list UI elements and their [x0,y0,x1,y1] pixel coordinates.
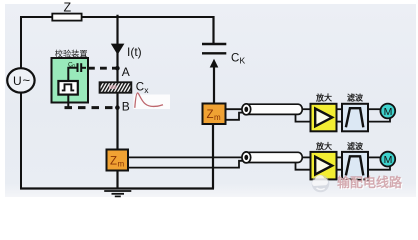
svg-text:C: C [136,82,144,94]
svg-text:x: x [144,85,149,95]
wire coax to amplifier (top rail) [303,108,311,110]
wire Zm2 to coax shield (bottom rail) [128,161,244,168]
amplifier box (top) [311,104,337,132]
wires amp to filter (top channel) [337,108,343,110]
wire filter to meter (top) [368,108,380,110]
measuring impedance Zm1 [203,104,226,125]
pulse generator (square-wave source) [58,81,77,95]
capacitor Cx (hatched specimen) [100,82,132,92]
bottom wire [20,187,214,189]
resistor Z [52,14,81,21]
junction dot at A [115,66,120,71]
arrow I(t) [111,44,125,55]
wire: main vertical below Zm2 to bottom wire [116,170,118,189]
wire stub from C0 to dashed line [81,67,86,69]
wire Zm2 to coax (top rail, crosses Zm1 drop) [128,156,243,158]
coax connector (bottom) [242,152,251,163]
wire coax to amplifier (bottom channel) [303,156,311,158]
svg-text:校验装置: 校验装置 [55,49,88,59]
wire coax shield down to bottom rail [296,114,311,121]
wire inside green box from C0 to pulse generator [68,68,77,81]
wire filter to meter bottom (bottom channel return) [368,166,390,170]
wire from pulse generator down out of green box [67,95,69,108]
svg-text:B: B [122,100,130,114]
wire filter to meter bottom (top channel return) [368,118,390,122]
impulse waveform sketch (white patch + red curve) [134,95,171,110]
wire: CK vertical from top wire [212,16,214,44]
svg-text:Z: Z [64,1,72,15]
svg-text:Z: Z [110,156,117,168]
wire: top horizontal [20,16,214,18]
green box: calibration device 校验装置 [52,58,89,103]
wires amp to filter (bottom channel) [337,156,343,158]
svg-text:滤波: 滤波 [347,93,364,103]
wire filter to meter (bottom) [368,156,380,158]
svg-text:~: ~ [23,73,31,88]
svg-text:滤波: 滤波 [347,141,364,151]
wire coax shield down (bottom channel) [296,163,311,170]
ground [104,190,131,192]
measuring impedance Zm2 [107,150,129,171]
watermark logo [312,175,330,193]
svg-text:K: K [240,56,246,66]
coax connector [242,104,251,115]
svg-text:m: m [214,113,221,122]
svg-text:输配电线路: 输配电线路 [337,175,403,190]
svg-text:m: m [118,160,125,169]
meter M (top) [380,104,395,119]
filter box (top) [342,104,368,132]
svg-text:放大: 放大 [315,93,332,103]
capacitor C0 [77,63,79,72]
svg-text:A: A [122,65,130,79]
coupling capacitor CK plates [202,43,226,45]
coax cable body (bottom) [247,152,303,162]
dashed line from pulse generator to node B [65,106,120,109]
svg-text:放大: 放大 [315,141,332,151]
svg-text:I(t): I(t) [127,45,142,59]
filter box (bottom) [342,152,368,180]
svg-text:U: U [13,74,22,88]
wire: main vertical line x=117.5 (top wire to Zm2) [116,15,118,150]
meter M (bottom) [380,152,395,167]
wire with up arrow from Zm1 to CK [213,66,215,104]
amplifier box (bottom) [311,152,337,180]
wire Zm1 to coax shield (bottom rail) [226,113,244,120]
junction dot at B [115,105,120,110]
dashed line from C0 to node A [88,67,118,70]
coax cable body [247,104,303,114]
svg-text:M: M [384,106,393,118]
wire from Zm1 down to bottom wire [212,124,214,189]
svg-text:M: M [384,154,393,166]
wire: left vertical from source to bottom wire [20,93,22,189]
wire Zm1 to coax (top rail) [226,108,244,110]
svg-text:Z: Z [207,109,214,121]
source U1 (AC source U~) [7,68,34,92]
svg-text:C: C [231,53,239,65]
wire: left vertical from top wire to source [20,16,22,68]
